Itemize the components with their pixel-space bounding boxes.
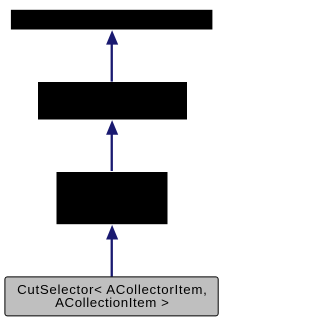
node box (redacted) top — [11, 10, 213, 30]
wire arrow 1 — [106, 30, 118, 81]
wire arrow 2 — [106, 120, 118, 171]
node box (redacted) lower — [57, 172, 168, 224]
node box (redacted) middle — [38, 82, 187, 120]
label CutSelector< ACollectorItem, ACollectionItem > — [6, 283, 219, 311]
wire arrow 3 — [106, 225, 118, 277]
node CutSelector current class (grey) — [5, 277, 218, 316]
